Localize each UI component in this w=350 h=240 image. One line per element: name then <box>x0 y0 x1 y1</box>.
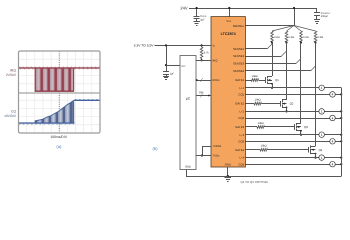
svg-text:10kΩ: 10kΩ <box>252 75 258 78</box>
svg-text:4: 4 <box>332 93 334 97</box>
svg-text:2V/DIV: 2V/DIV <box>6 73 17 77</box>
svg-text:1μF: 1μF <box>170 72 175 75</box>
svg-text:L+3: L+3 <box>239 133 244 137</box>
svg-text:0.2Ω: 0.2Ω <box>318 36 324 39</box>
svg-text:4: 4 <box>332 116 334 120</box>
svg-text:CQ2: CQ2 <box>238 116 244 120</box>
svg-text:3.3V TO 5.5V: 3.3V TO 5.5V <box>134 44 155 48</box>
svg-text:10kΩ: 10kΩ <box>261 145 267 148</box>
svg-text:10kΩ: 10kΩ <box>255 98 261 101</box>
svg-text:GATE1: GATE1 <box>235 78 244 82</box>
svg-text:L+4: L+4 <box>239 156 244 160</box>
svg-text:4.7k: 4.7k <box>204 52 210 55</box>
svg-text:1: 1 <box>321 110 323 114</box>
svg-text:LTC2874: LTC2874 <box>221 32 237 36</box>
svg-text:10kΩ: 10kΩ <box>258 122 264 125</box>
svg-text:(a): (a) <box>56 144 62 149</box>
svg-text:SENSE4: SENSE4 <box>233 69 244 73</box>
svg-text:TXENx: TXENx <box>212 144 221 148</box>
svg-text:CQ1: CQ1 <box>238 93 244 97</box>
svg-text:SENSE2: SENSE2 <box>233 54 244 58</box>
svg-text:L+2: L+2 <box>239 110 244 114</box>
svg-text:4: 4 <box>332 140 334 144</box>
svg-text:4: 4 <box>332 163 334 167</box>
svg-text:GATE3: GATE3 <box>235 125 244 129</box>
svg-text:μC: μC <box>186 97 191 101</box>
svg-text:100μF: 100μF <box>321 15 329 18</box>
svg-text:RXDx: RXDx <box>212 78 220 82</box>
svg-text:GATE2: GATE2 <box>235 102 244 106</box>
svg-text:Q1: Q1 <box>275 78 279 82</box>
svg-text:1μF: 1μF <box>200 18 205 21</box>
svg-text:24V: 24V <box>180 6 187 11</box>
svg-text:VCC: VCC <box>181 65 186 68</box>
svg-text:CQ: CQ <box>11 110 16 114</box>
svg-text:0.2Ω: 0.2Ω <box>303 36 309 39</box>
svg-text:SPI: SPI <box>199 91 204 95</box>
svg-text:Q2: Q2 <box>290 102 294 106</box>
svg-text:1: 1 <box>321 86 323 90</box>
svg-text:CQ3: CQ3 <box>238 139 244 143</box>
svg-text:0.2Ω: 0.2Ω <box>274 36 280 39</box>
svg-text:Q1 TO Q4: FDT7N10: Q1 TO Q4: FDT7N10 <box>241 180 269 184</box>
svg-text:100ms/DIV: 100ms/DIV <box>50 135 68 139</box>
svg-text:IRQ: IRQ <box>212 58 218 62</box>
svg-text:SENSE1: SENSE1 <box>233 47 244 51</box>
svg-text:10V/DIV: 10V/DIV <box>4 114 17 118</box>
svg-text:GND: GND <box>185 166 191 169</box>
svg-text:CQ4: CQ4 <box>238 162 244 166</box>
svg-text:Q4: Q4 <box>319 148 323 152</box>
svg-text:0.2Ω: 0.2Ω <box>289 36 295 39</box>
svg-text:Q3: Q3 <box>304 125 308 129</box>
svg-text:1: 1 <box>321 156 323 160</box>
svg-text:(b): (b) <box>152 146 158 151</box>
svg-text:TXDx: TXDx <box>212 154 220 158</box>
svg-text:GATE4: GATE4 <box>235 148 244 152</box>
svg-text:IRQ: IRQ <box>10 69 16 73</box>
svg-text:L+1: L+1 <box>239 86 244 90</box>
svg-text:SENSE3: SENSE3 <box>233 62 244 66</box>
svg-text:GND: GND <box>225 163 231 167</box>
svg-text:1: 1 <box>321 133 323 137</box>
